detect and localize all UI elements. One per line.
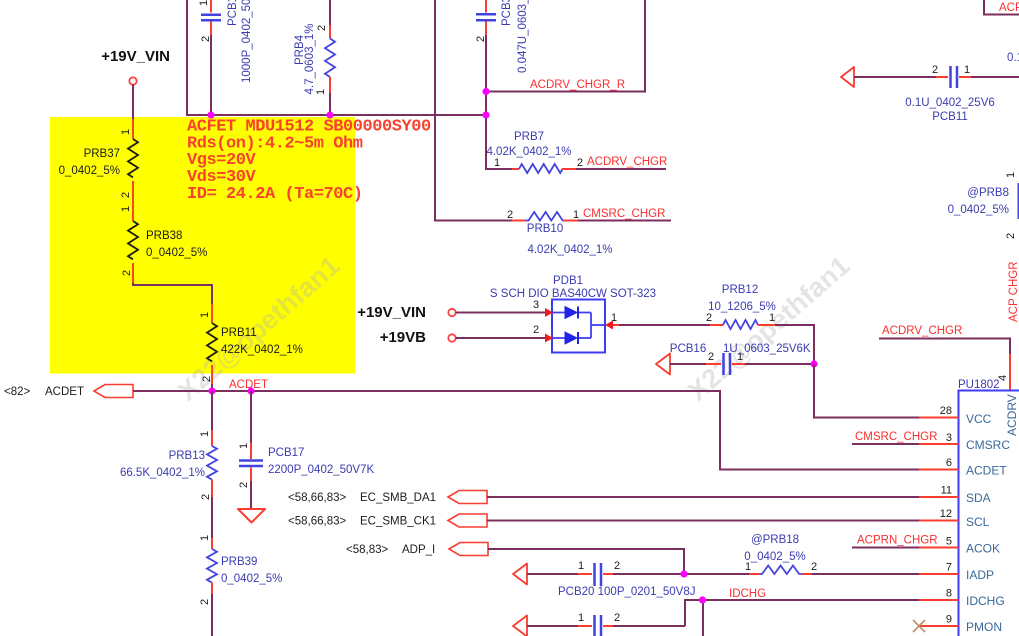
wire jog PRB38 to PRB11 bbox=[133, 283, 212, 304]
resistor PRB38 bbox=[120, 201, 207, 283]
capacitor PCB20 (IADP row) bbox=[513, 560, 749, 598]
pin 7 IADP stub bbox=[919, 562, 959, 575]
svg-text:2: 2 bbox=[121, 270, 133, 276]
svg-text:ACDRV_CHGR: ACDRV_CHGR bbox=[882, 325, 962, 337]
svg-text:3: 3 bbox=[533, 299, 539, 311]
svg-text:PRB37: PRB37 bbox=[84, 148, 120, 160]
pin 9 PMON stub + no-connect X bbox=[913, 614, 959, 633]
svg-text:+19V_VIN: +19V_VIN bbox=[101, 48, 170, 65]
wire PRB12 to node bbox=[775, 325, 814, 364]
resistor PRB7 bbox=[486, 131, 667, 173]
node EC_SMB_CK1 row bbox=[288, 514, 919, 528]
svg-text:0.1: 0.1 bbox=[1007, 52, 1019, 64]
svg-text:2: 2 bbox=[706, 312, 712, 324]
svg-text:4.7_0603_1%: 4.7_0603_1% bbox=[304, 24, 316, 95]
svg-text:1U_0603_25V6K: 1U_0603_25V6K bbox=[723, 343, 811, 355]
svg-text:4.02K_0402_1%: 4.02K_0402_1% bbox=[486, 146, 571, 158]
svg-text:ID= 24.2A (Ta=70C): ID= 24.2A (Ta=70C) bbox=[187, 185, 363, 204]
watermark 2 bbox=[682, 250, 855, 406]
node EC_SMB_DA1 row bbox=[288, 491, 919, 505]
svg-text:1: 1 bbox=[238, 443, 250, 449]
svg-text:ACDET: ACDET bbox=[45, 386, 84, 398]
svg-text:+19VB: +19VB bbox=[380, 329, 426, 346]
svg-text:1: 1 bbox=[120, 129, 132, 135]
pin 28 VCC stub bbox=[919, 405, 959, 418]
diode PDB1 (dual schottky BAS40CW) bbox=[490, 275, 656, 353]
svg-text:ACDET: ACDET bbox=[966, 464, 1007, 478]
svg-text:11: 11 bbox=[941, 485, 952, 497]
svg-text:2: 2 bbox=[577, 157, 583, 169]
svg-text:1: 1 bbox=[578, 612, 584, 624]
pin 3 CMSRC stub + label CMSRC_CHGR bbox=[852, 431, 959, 444]
svg-text:<58,83>: <58,83> bbox=[346, 544, 388, 556]
svg-text:0.1U_0402_25V6: 0.1U_0402_25V6 bbox=[905, 97, 995, 109]
node box ACP (top right corner) bbox=[984, 0, 1019, 15]
svg-text:PCB11: PCB11 bbox=[932, 111, 968, 123]
junction ADP_I/IADP bbox=[680, 570, 687, 577]
svg-text:2: 2 bbox=[475, 36, 487, 42]
svg-text:IDCHG: IDCHG bbox=[729, 588, 766, 600]
label IDCHG bbox=[729, 588, 766, 600]
svg-text:CMSRC_CHGR: CMSRC_CHGR bbox=[583, 208, 665, 220]
svg-text:1: 1 bbox=[573, 209, 579, 221]
node ADP_I row bbox=[346, 543, 684, 575]
svg-text:7: 7 bbox=[946, 562, 952, 574]
svg-text:VCC: VCC bbox=[966, 412, 992, 426]
resistor PRB13 bbox=[120, 391, 217, 538]
wire PDB1 pin1 to PRB12 bbox=[619, 324, 710, 326]
wire ACDRV_CHGR_R bbox=[486, 0, 645, 92]
svg-text:ACP CHGR: ACP CHGR bbox=[1008, 262, 1019, 323]
svg-text:SDA: SDA bbox=[966, 491, 991, 505]
svg-text:PCB3: PCB3 bbox=[501, 0, 513, 26]
svg-text:0.047U_0603_50V: 0.047U_0603_50V bbox=[517, 0, 529, 73]
svg-text:1: 1 bbox=[315, 89, 327, 95]
svg-text:S SCH DIO BAS40CW SOT-323: S SCH DIO BAS40CW SOT-323 bbox=[490, 288, 656, 300]
wire vertical feed to PRB10 bbox=[435, 0, 512, 221]
pin 11 SDA stub bbox=[919, 485, 959, 498]
svg-text:PDB1: PDB1 bbox=[553, 275, 583, 287]
power terminal +19V_VIN (top left) bbox=[101, 48, 170, 119]
svg-text:ACDRV_CHGR_R: ACDRV_CHGR_R bbox=[530, 79, 625, 91]
junction IDCHG bbox=[699, 596, 706, 603]
resistor PRB12 bbox=[706, 284, 776, 329]
svg-text:PCB17: PCB17 bbox=[268, 447, 304, 459]
capacitor PCB21 (bottom row) bbox=[513, 612, 685, 636]
svg-text:2: 2 bbox=[708, 351, 714, 363]
svg-text:10_1206_5%: 10_1206_5% bbox=[708, 301, 776, 313]
power terminal +19VB bbox=[380, 329, 545, 346]
svg-text:SCL: SCL bbox=[966, 515, 990, 529]
svg-text:IDCHG: IDCHG bbox=[966, 594, 1005, 608]
svg-text:1: 1 bbox=[745, 561, 751, 573]
watermark 1 bbox=[172, 250, 345, 406]
svg-text:EC_SMB_DA1: EC_SMB_DA1 bbox=[360, 492, 436, 504]
svg-text:PMON: PMON bbox=[966, 620, 1002, 634]
svg-text:66.5K_0402_1%: 66.5K_0402_1% bbox=[120, 467, 205, 479]
svg-text:PCB16: PCB16 bbox=[670, 343, 706, 355]
highlight yellow note area bbox=[50, 117, 355, 374]
svg-text:0_0402_5%: 0_0402_5% bbox=[744, 551, 805, 563]
svg-text:PCB20 100P_0201_50V8J: PCB20 100P_0201_50V8J bbox=[558, 586, 695, 598]
svg-text:1: 1 bbox=[199, 431, 211, 437]
wire top-left net (left edge + horizontal bus y=115) bbox=[187, 0, 486, 115]
svg-text:0_0402_5%: 0_0402_5% bbox=[221, 573, 282, 585]
svg-text:PRB13: PRB13 bbox=[169, 450, 205, 462]
svg-text:2: 2 bbox=[811, 561, 817, 573]
svg-text:<58,66,83>: <58,66,83> bbox=[288, 492, 346, 504]
svg-text:0_0402_5%: 0_0402_5% bbox=[59, 165, 120, 177]
resistor @PRB18 bbox=[744, 534, 919, 574]
pin 12 SCL stub bbox=[919, 508, 959, 521]
svg-text:1: 1 bbox=[198, 0, 210, 6]
svg-text:CMSRC: CMSRC bbox=[966, 438, 1010, 452]
svg-text:ACDRV_CHGR: ACDRV_CHGR bbox=[587, 156, 667, 168]
svg-text:PRB39: PRB39 bbox=[221, 556, 257, 568]
resistor PRB37 bbox=[59, 119, 138, 201]
svg-text:0_0402_5%: 0_0402_5% bbox=[948, 204, 1009, 216]
svg-text:1: 1 bbox=[199, 535, 211, 541]
svg-text:422K_0402_1%: 422K_0402_1% bbox=[221, 344, 303, 356]
resistor PRB11 bbox=[199, 304, 303, 391]
svg-text:EC_SMB_CK1: EC_SMB_CK1 bbox=[360, 516, 436, 528]
svg-text:1: 1 bbox=[578, 560, 584, 572]
svg-text:2: 2 bbox=[201, 376, 213, 382]
junction node bus bbox=[207, 88, 489, 119]
svg-text:2: 2 bbox=[614, 612, 620, 624]
svg-text:@PRB8: @PRB8 bbox=[967, 187, 1009, 199]
svg-text:1000P_0402_50V: 1000P_0402_50V bbox=[241, 0, 253, 83]
svg-text:2: 2 bbox=[200, 36, 212, 42]
svg-text:2: 2 bbox=[120, 192, 132, 198]
svg-text:@PRB18: @PRB18 bbox=[751, 534, 799, 546]
svg-text:6: 6 bbox=[946, 457, 952, 469]
svg-text:PRB38: PRB38 bbox=[146, 230, 182, 242]
svg-text:28: 28 bbox=[940, 405, 952, 417]
power terminal +19V_VIN (diode input) bbox=[357, 304, 545, 321]
svg-text:+19V_VIN: +19V_VIN bbox=[357, 304, 426, 321]
svg-text:<58,66,83>: <58,66,83> bbox=[288, 516, 346, 528]
wire IDCHG net bbox=[685, 600, 919, 636]
svg-text:ACPRN_CHGR: ACPRN_CHGR bbox=[857, 535, 938, 547]
junction node bbox=[810, 360, 817, 367]
svg-text:5: 5 bbox=[946, 536, 952, 548]
svg-text:CMSRC_CHGR: CMSRC_CHGR bbox=[855, 431, 937, 443]
junction ACDET nodes bbox=[208, 387, 254, 394]
label ACDRV_CHGR net to pin4 bbox=[879, 325, 1010, 390]
svg-text:ACDRV: ACDRV bbox=[1005, 394, 1019, 436]
svg-text:1: 1 bbox=[120, 206, 132, 212]
resistor @PRB8 (right edge) bbox=[948, 172, 1019, 239]
label ACP CHGR (rotated net name) bbox=[1008, 262, 1019, 323]
wire feed to PRB7 bbox=[486, 92, 512, 170]
IC PU1802 bbox=[958, 379, 1019, 636]
svg-text:2: 2 bbox=[200, 494, 212, 500]
ground symbol (PCB17) bbox=[238, 509, 265, 523]
svg-text:2: 2 bbox=[1005, 233, 1017, 239]
svg-text:2: 2 bbox=[507, 209, 513, 221]
svg-text:12: 12 bbox=[940, 508, 952, 520]
wire node to VCC pin bbox=[814, 364, 919, 418]
capacitor PCB1 bbox=[198, 0, 253, 115]
svg-text:1: 1 bbox=[1005, 172, 1017, 178]
resistor PRB10 bbox=[507, 208, 671, 256]
svg-text:ACOK: ACOK bbox=[966, 542, 1000, 556]
value text 0. (clipped) bbox=[1007, 52, 1019, 64]
pin 5 ACOK stub + label ACPRN_CHGR bbox=[852, 535, 959, 548]
svg-text:2: 2 bbox=[316, 25, 328, 31]
svg-text:1: 1 bbox=[199, 312, 211, 318]
wire ACDET net bbox=[133, 391, 919, 470]
note ACFET spec text bbox=[187, 118, 431, 205]
svg-text:ACPR: ACPR bbox=[999, 2, 1019, 14]
svg-text:2: 2 bbox=[238, 482, 250, 488]
svg-text:8: 8 bbox=[946, 588, 952, 600]
node ACDET off-page pointer bbox=[4, 379, 268, 398]
svg-text:PRB10: PRB10 bbox=[527, 223, 563, 235]
svg-text:IADP: IADP bbox=[966, 568, 994, 582]
svg-text:1: 1 bbox=[769, 312, 775, 324]
svg-text:PU1802: PU1802 bbox=[958, 379, 1000, 391]
svg-text:2: 2 bbox=[199, 599, 211, 605]
capacitor PCB16 bbox=[656, 343, 814, 375]
pin 6 ACDET stub bbox=[919, 457, 959, 470]
svg-text:PCB1: PCB1 bbox=[227, 0, 239, 26]
svg-text:PRB7: PRB7 bbox=[514, 131, 544, 143]
pin 8 IDCHG stub bbox=[919, 588, 959, 601]
capacitor PCB11 (top right) bbox=[841, 64, 1019, 123]
resistor PRB4 bbox=[294, 0, 335, 115]
svg-text:1: 1 bbox=[964, 64, 970, 76]
resistor PRB39 bbox=[199, 535, 282, 636]
capacitor PCB17 bbox=[238, 391, 374, 508]
svg-text:1: 1 bbox=[494, 157, 500, 169]
svg-text:2: 2 bbox=[932, 64, 938, 76]
svg-text:PRB12: PRB12 bbox=[722, 284, 758, 296]
svg-text:0_0402_5%: 0_0402_5% bbox=[146, 247, 207, 259]
svg-text:3: 3 bbox=[946, 432, 952, 444]
svg-text:2200P_0402_50V7K: 2200P_0402_50V7K bbox=[268, 464, 374, 476]
svg-text:ADP_I: ADP_I bbox=[402, 544, 435, 556]
svg-text:9: 9 bbox=[946, 614, 952, 626]
svg-text:<82>: <82> bbox=[4, 386, 31, 398]
svg-text:4.02K_0402_1%: 4.02K_0402_1% bbox=[527, 244, 612, 256]
svg-text:2: 2 bbox=[533, 324, 539, 336]
svg-text:2: 2 bbox=[614, 560, 620, 572]
svg-text:PRB11: PRB11 bbox=[221, 327, 257, 339]
capacitor PCB3 bbox=[475, 0, 529, 92]
